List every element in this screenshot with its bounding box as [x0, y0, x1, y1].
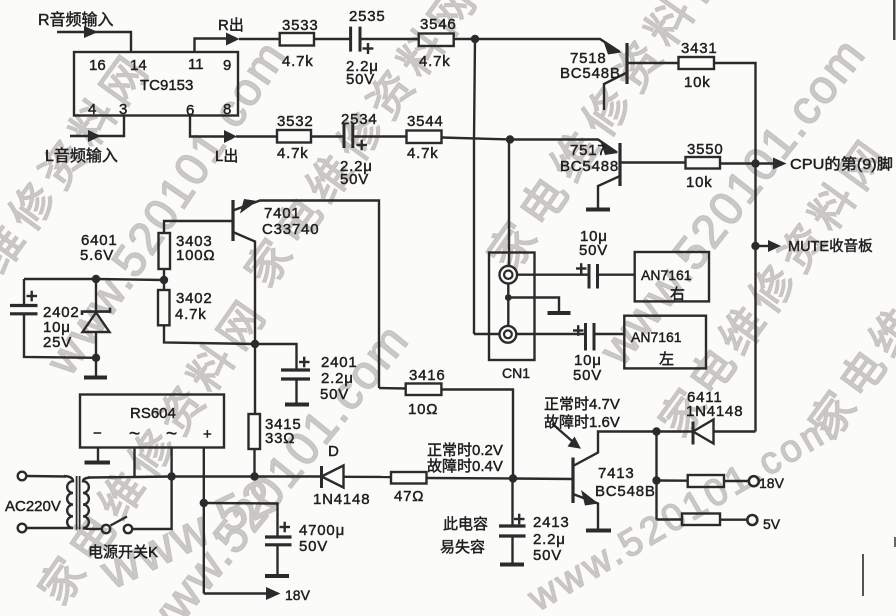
resistor R3532	[277, 130, 311, 143]
wire 3416 to 7413 base node	[441, 390, 513, 479]
wire secondary bottom to switch	[94, 528, 102, 530]
wire middle pin link	[507, 284, 509, 327]
svg-text:5.6V: 5.6V	[80, 247, 114, 264]
svg-text:TC9153: TC9153	[140, 77, 193, 94]
jack upper outer circle	[500, 266, 518, 284]
resistor R47	[391, 472, 427, 484]
wire pin11 to R out	[195, 39, 227, 53]
svg-text:2.2μ: 2.2μ	[533, 531, 566, 548]
wire 7413 emitter	[573, 494, 598, 529]
svg-text:3550: 3550	[687, 141, 724, 158]
bridge rectifier RS604 box	[80, 395, 224, 448]
resistor R3416	[406, 384, 442, 396]
wire 3403 to rail node	[163, 269, 165, 290]
svg-text:7413: 7413	[598, 465, 635, 482]
ground 2413	[500, 563, 524, 567]
svg-text:故障时0.4V: 故障时0.4V	[427, 457, 503, 475]
svg-text:2.2μ: 2.2μ	[321, 370, 354, 387]
ground 6401	[84, 376, 107, 380]
IC AN7161 right-channel box	[635, 252, 709, 301]
wire 3550 to CPU node	[720, 162, 756, 164]
wire 7401 emitter riser to 3416	[379, 387, 406, 390]
ground 7413	[586, 529, 611, 533]
svg-text:L音频输入: L音频输入	[45, 147, 118, 165]
arrow MUTE	[768, 240, 781, 252]
svg-text:3431: 3431	[681, 40, 718, 57]
resistor R-18V	[688, 475, 724, 487]
svg-text:右: 右	[670, 286, 685, 303]
transformer T primary coil	[62, 476, 73, 528]
svg-text:3532: 3532	[277, 113, 314, 130]
svg-text:25V: 25V	[43, 334, 72, 351]
node 3415-rail junction	[250, 472, 258, 480]
wire AC bottom to primary	[27, 527, 63, 529]
svg-text:14: 14	[130, 57, 147, 74]
node plus junction	[200, 499, 208, 507]
svg-text:CPU的第(9)脚: CPU的第(9)脚	[790, 155, 893, 173]
ground 2401	[285, 403, 309, 407]
svg-text:D: D	[328, 443, 340, 460]
svg-text:−: −	[93, 425, 102, 442]
svg-text:18V: 18V	[759, 475, 785, 491]
wire 5V resistor to terminal	[720, 519, 747, 521]
wire lower jack horizontal	[474, 333, 586, 335]
svg-text:10k: 10k	[684, 74, 711, 91]
svg-text:2413: 2413	[533, 514, 570, 531]
node R junction	[471, 35, 479, 43]
wire L audio input	[70, 116, 124, 137]
wire 2402 bottom to zener node	[24, 314, 96, 358]
wire upper jack to cap	[517, 274, 589, 276]
node CN1 middle pin	[505, 294, 512, 301]
terminal 5V	[747, 515, 757, 525]
wire cap to AN7161 L	[594, 333, 624, 335]
wire to 5V resistor	[657, 518, 683, 520]
transistor Q7413 bar	[571, 458, 574, 504]
node CPU junction	[751, 159, 759, 167]
zener D6401 triangle	[83, 313, 110, 333]
wire 7517 emitter	[598, 176, 620, 208]
terminal switch left	[102, 525, 110, 533]
diode D6411 bar	[692, 422, 695, 445]
resistor R3402 vertical	[158, 290, 170, 325]
switch lever	[111, 517, 128, 526]
resistor R3550	[686, 157, 721, 169]
node 18V junction	[652, 476, 660, 484]
wire cap to AN7161 R	[598, 274, 635, 276]
plus sign C2534	[357, 140, 368, 151]
svg-text:左: 左	[659, 351, 674, 368]
wire 7401 collector down	[233, 232, 255, 344]
svg-text:易失容: 易失容	[440, 539, 485, 556]
zener D6401 bar	[82, 308, 110, 315]
wire 3532 to cap 2534	[311, 135, 344, 137]
zener D6401 top lead	[95, 279, 97, 312]
svg-text:4: 4	[88, 101, 96, 118]
svg-text:~: ~	[166, 424, 177, 445]
svg-text:2535: 2535	[349, 8, 386, 25]
svg-text:2401: 2401	[321, 354, 358, 371]
capacitor C2534	[344, 123, 353, 148]
arrow 7413 emitter	[581, 490, 599, 506]
wire 3415 to DC rail node	[253, 449, 255, 477]
wire node L riser down to CN1	[508, 140, 510, 267]
svg-text:50V: 50V	[299, 538, 328, 555]
resistor R3403 vertical	[159, 233, 171, 269]
capacitor C2413 top lead	[511, 479, 513, 527]
zener D6401 bottom lead	[95, 332, 97, 376]
wire 2535 to resistor 3546	[360, 38, 419, 40]
terminal AC bottom	[18, 524, 27, 533]
plus sign C-10u-R	[576, 263, 587, 274]
wire 2413 bottom lead	[511, 536, 513, 563]
wire 3533 to cap 2535	[314, 38, 351, 40]
resistor R3546	[419, 34, 454, 47]
node zener junction top	[92, 275, 100, 283]
wire 18V arrow stub	[204, 592, 266, 594]
wire 7401 collector to 3415	[254, 344, 256, 414]
svg-text:2534: 2534	[341, 111, 378, 128]
wire AC top to primary	[27, 475, 67, 478]
ground CN1	[548, 311, 571, 315]
jack lower outer circle	[500, 326, 517, 343]
ground 4700	[265, 574, 289, 578]
svg-text:3533: 3533	[282, 17, 319, 34]
arrow CPU pin9	[773, 158, 787, 170]
capacitor C4700 plates	[265, 537, 292, 545]
wire L out to resistor 3532	[236, 135, 277, 137]
wire 3402 bottom to node 2401	[164, 325, 255, 344]
wire plus node to cap 4700	[204, 503, 278, 537]
wire node R to 7518 base	[475, 39, 620, 52]
wire node R riser down to CN1	[474, 39, 475, 334]
wire 47ohm to base node	[427, 477, 514, 480]
svg-text:正常时4.7V: 正常时4.7V	[544, 396, 620, 413]
wire 3544 to node L	[442, 138, 511, 140]
wire R audio input	[57, 32, 131, 52]
annotation arrow 7413 collector	[552, 424, 576, 445]
capacitor C2413 plates	[499, 526, 526, 536]
svg-text:50V: 50V	[320, 386, 349, 403]
plus sign C2413	[514, 514, 525, 525]
capacitor C2401 plates	[281, 370, 310, 379]
transistor Q7517 bar	[618, 143, 621, 186]
svg-text:3546: 3546	[420, 16, 457, 33]
wire CPU arrow stub	[756, 162, 774, 164]
arrow L input	[88, 130, 101, 142]
arrow 7518 base	[603, 40, 621, 55]
svg-text:50V: 50V	[579, 242, 608, 259]
wire node to cap 2401	[255, 344, 297, 370]
wire 7401 emitter up	[233, 201, 379, 389]
svg-text:6: 6	[186, 102, 194, 119]
wire node to 6411	[657, 430, 694, 432]
svg-text:正常时0.2V: 正常时0.2V	[427, 442, 503, 459]
ground 7517	[586, 208, 610, 212]
arrow 7517 base	[600, 141, 618, 156]
svg-text:3402: 3402	[176, 290, 213, 307]
capacitor C2402 plates	[10, 306, 38, 314]
wire 3403 top to 7401 base	[164, 221, 233, 233]
svg-text:L出: L出	[215, 148, 238, 165]
svg-text:3544: 3544	[407, 113, 444, 130]
wire 3546 to node R	[454, 38, 475, 40]
node 3403-3402 junction	[160, 276, 168, 284]
wire middle pin to ground	[508, 298, 559, 312]
arrow 18V	[266, 587, 281, 600]
wire MUTE arrow stub	[756, 245, 769, 247]
svg-text:50V: 50V	[573, 367, 602, 384]
IC AN7161 left-channel box	[624, 316, 706, 369]
svg-text:MUTE收音板: MUTE收音板	[788, 237, 873, 255]
transistor Q7401 bar	[231, 200, 234, 241]
diode D6411 triangle	[693, 420, 714, 444]
svg-text:10Ω: 10Ω	[408, 401, 438, 418]
svg-text:7401: 7401	[264, 205, 301, 222]
svg-text:RS604: RS604	[130, 405, 176, 422]
wire 7517 collector	[620, 161, 686, 163]
svg-text:BC5488: BC5488	[560, 158, 619, 175]
vertical right rail	[754, 164, 756, 432]
svg-text:电源开关K: 电源开关K	[88, 544, 158, 561]
CN1 connector box	[489, 253, 535, 361]
wire to 18V resistor	[657, 479, 688, 482]
svg-text:AN7161: AN7161	[641, 267, 692, 283]
capacitor C-10u-R plates	[589, 264, 598, 289]
svg-text:50V: 50V	[346, 71, 375, 88]
wire R out to resistor 3533	[239, 38, 280, 40]
arrowhead annotation	[568, 437, 582, 449]
terminal switch right	[124, 525, 132, 533]
terminal 18V	[749, 476, 759, 486]
plus sign C-10u-L	[573, 325, 584, 336]
capacitor C-10u-L plates	[586, 323, 595, 351]
wire RS604 minus pin	[97, 448, 99, 462]
plus sign C2401	[299, 357, 310, 368]
svg-text:~: ~	[129, 424, 140, 445]
svg-text:4.7k: 4.7k	[419, 53, 451, 70]
svg-text:AC220V: AC220V	[5, 498, 61, 515]
wire RS604 ac1 pin	[133, 448, 135, 477]
svg-text:1N4148: 1N4148	[686, 403, 743, 420]
node zener junction bottom	[92, 354, 100, 362]
wire secondary top to rail	[88, 476, 135, 479]
capacitor C2535	[351, 27, 360, 52]
svg-text:11: 11	[188, 56, 204, 73]
jack upper inner circle	[504, 271, 512, 279]
wire 4700 bottom lead	[276, 545, 278, 575]
svg-text:4700μ: 4700μ	[299, 522, 345, 539]
svg-text:R出: R出	[218, 17, 244, 34]
svg-text:4.7k: 4.7k	[282, 53, 314, 70]
arrow 7401 emitter	[240, 199, 258, 214]
node 6411 junction	[652, 427, 660, 435]
node MUTE junction	[751, 242, 759, 250]
diode D triangle	[322, 466, 344, 488]
svg-text:8: 8	[223, 101, 231, 118]
jack lower inner circle	[504, 330, 512, 338]
wire RS604 plus pin down	[203, 448, 205, 594]
arrow R out	[226, 33, 240, 46]
resistor R3544	[407, 131, 442, 144]
svg-text:9: 9	[223, 57, 231, 74]
svg-text:33Ω: 33Ω	[265, 430, 295, 447]
plus sign C2402	[27, 291, 38, 302]
transformer core lines	[77, 476, 80, 530]
svg-text:CN1: CN1	[502, 365, 530, 381]
wire rail corner to cap 2402	[23, 279, 25, 306]
resistor R3431	[679, 57, 715, 69]
svg-text:故障时1.6V: 故障时1.6V	[544, 413, 620, 431]
svg-text:18V: 18V	[285, 587, 311, 603]
svg-text:C33740: C33740	[262, 221, 319, 238]
svg-text:10k: 10k	[686, 174, 713, 191]
IC U1 TC9153	[74, 52, 238, 116]
svg-text:16: 16	[89, 57, 106, 74]
node 7413 base junction	[509, 474, 517, 482]
transformer T secondary coil	[83, 478, 94, 530]
wire base node to 7413	[513, 477, 573, 480]
resistor R3415 vertical	[249, 414, 261, 449]
svg-text:7517: 7517	[570, 142, 607, 159]
wire RS604 ac2 pin to switch	[132, 448, 172, 530]
svg-text:R音频输入: R音频输入	[38, 11, 114, 29]
svg-text:47Ω: 47Ω	[394, 488, 424, 505]
svg-text:4.7k: 4.7k	[407, 145, 439, 162]
wire 7518 emitter	[604, 73, 627, 111]
rail 5.6V	[24, 279, 164, 280]
node ac2 junction	[167, 472, 175, 480]
diode D bar	[320, 466, 323, 488]
svg-text:AN7161: AN7161	[631, 329, 682, 345]
DC rail to 7413 base	[135, 475, 322, 478]
wire node down to 5V branch	[655, 432, 657, 520]
ground RS604	[85, 461, 111, 465]
node 2401 junction	[251, 340, 259, 348]
svg-text:4.7k: 4.7k	[175, 306, 207, 323]
wire 2534 to resistor 3544	[353, 135, 407, 137]
wire 3431 to right rail	[714, 63, 756, 164]
wire 7413 collector	[573, 432, 657, 467]
svg-text:50V: 50V	[533, 547, 562, 564]
resistor R-5V	[682, 514, 720, 526]
plus sign C4700	[280, 522, 291, 533]
svg-text:此电容: 此电容	[443, 516, 488, 533]
wire 18V resistor to terminal	[724, 480, 749, 482]
svg-text:50V: 50V	[340, 171, 369, 188]
svg-text:3416: 3416	[409, 367, 446, 384]
svg-text:100Ω: 100Ω	[176, 247, 215, 264]
svg-text:BC548B: BC548B	[595, 483, 656, 500]
node L junction	[506, 135, 514, 143]
terminal AC top	[18, 472, 27, 481]
arrow R input	[84, 26, 98, 38]
svg-text:4.7k: 4.7k	[277, 145, 309, 162]
svg-text:+: +	[203, 426, 212, 443]
svg-text:BC548B: BC548B	[560, 65, 621, 82]
wire 7518 collector	[627, 62, 679, 64]
wire 6411 to right rail	[714, 430, 756, 432]
transistor Q7518 bar	[625, 43, 628, 84]
plus sign C2535	[363, 43, 374, 54]
svg-text:5V: 5V	[763, 516, 781, 532]
svg-text:3: 3	[119, 101, 127, 118]
wire 2401 bottom lead	[295, 379, 297, 403]
wire pin6 to L out	[190, 116, 224, 137]
resistor R3533	[280, 33, 314, 46]
svg-text:1N4148: 1N4148	[313, 491, 370, 508]
wire diode to 47ohm	[344, 476, 392, 479]
arrow L out	[224, 130, 237, 143]
wire node L to 7517 base	[510, 140, 617, 153]
